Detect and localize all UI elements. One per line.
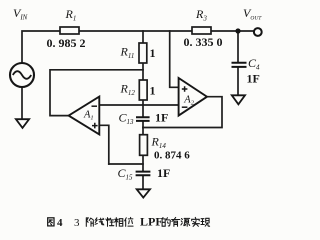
wire R11 stub	[142, 31, 144, 43]
wire R14 stub	[142, 128, 144, 135]
svg-text:LPF: LPF	[140, 215, 163, 229]
caption kanji 性	[106, 218, 114, 227]
wire C4 to ground	[237, 67, 239, 95]
caption kanji 的	[162, 218, 170, 227]
wire A2 output feedback to C13-R14 node	[143, 97, 222, 128]
op-amp A1	[69, 97, 100, 135]
svg-text:0. 335 0: 0. 335 0	[184, 35, 223, 49]
svg-text:1F: 1F	[247, 72, 260, 86]
capacitor C13	[119, 111, 169, 127]
junction node dot	[235, 28, 240, 33]
wire C13 stub	[142, 105, 144, 117]
wire source to ground	[21, 87, 23, 119]
wire VIN to R1	[22, 31, 60, 63]
caption kanji 有	[172, 217, 180, 226]
ground (C4)	[232, 95, 245, 104]
resistor R12	[120, 80, 156, 100]
wire C4 branch down	[237, 31, 239, 62]
output terminal	[254, 28, 262, 36]
capacitor C15	[118, 166, 171, 182]
wire A2+ path from top node	[170, 31, 179, 87]
AC source V1	[10, 63, 34, 87]
svg-text:0. 874 6: 0. 874 6	[154, 150, 190, 162]
svg-text:4: 4	[57, 217, 63, 229]
wire A1+ path	[99, 125, 109, 164]
svg-text:0. 985 2: 0. 985 2	[47, 36, 86, 50]
wire node A1- to A2-	[99, 104, 178, 106]
caption kanji 相	[115, 218, 123, 227]
caption figure number 图4	[48, 218, 54, 226]
svg-text:1: 1	[150, 84, 156, 98]
ground (source)	[16, 119, 29, 128]
wire R14 to node4	[142, 155, 144, 164]
wire R12 to node	[142, 100, 144, 105]
resistor R11	[120, 43, 156, 63]
svg-text:1F: 1F	[157, 166, 170, 180]
caption kanji 实	[192, 217, 200, 226]
resistor R14	[140, 135, 191, 162]
caption kanji 现	[201, 218, 210, 226]
wire R1 to R3	[79, 30, 192, 32]
wire R3 to VOUT terminal	[211, 30, 254, 32]
wire A1 output feedback to R11-R12 node	[50, 70, 143, 116]
resistor R3	[184, 7, 223, 49]
svg-text:1: 1	[150, 46, 156, 60]
resistor R1	[47, 7, 86, 50]
wire C15 to ground	[142, 176, 144, 190]
wire R11 to R12	[142, 63, 144, 80]
svg-text:1F: 1F	[155, 111, 168, 125]
op-amp A2	[179, 78, 207, 116]
caption kanji 源	[181, 218, 190, 226]
ground (C15)	[137, 189, 150, 197]
wire node4 to C15	[109, 164, 143, 171]
wire C13 to node3	[142, 121, 144, 128]
svg-text:3: 3	[74, 217, 80, 229]
capacitor C4	[232, 56, 261, 86]
caption kanji 位	[125, 217, 133, 226]
caption kanji 阶	[86, 218, 93, 227]
caption kanji 线	[95, 218, 104, 225]
